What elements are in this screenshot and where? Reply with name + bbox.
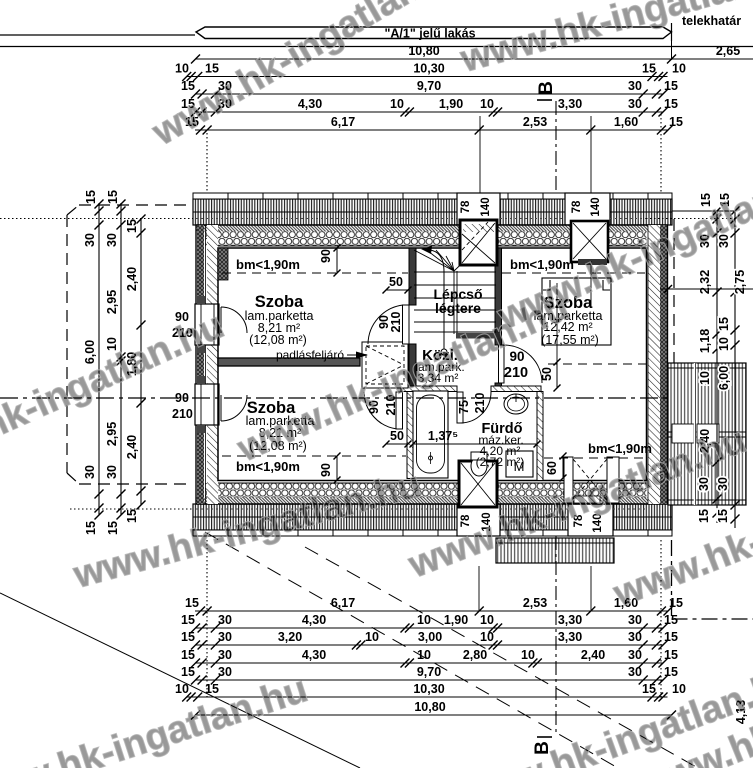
WC: [471, 452, 487, 476]
svg-text:10: 10: [390, 97, 404, 111]
partition wall between left rooms: [218, 358, 360, 366]
wall axis dashed right: [548, 363, 646, 365]
right dimension chain 2 (15/30/2,75/15/10/6,00/30/15): [716, 193, 747, 528]
svg-text:15: 15: [664, 613, 678, 627]
bottom window with jambs: [564, 457, 619, 503]
dotted extension bottom-left: [70, 508, 197, 510]
svg-text:75: 75: [457, 400, 471, 414]
title bracket A/1 jelu lakas: [196, 23, 672, 41]
svg-text:78: 78: [460, 200, 472, 213]
svg-text:3,00: 3,00: [418, 630, 442, 644]
svg-text:10: 10: [672, 62, 686, 76]
site boundary diagonal solid: [0, 593, 360, 768]
svg-text:9,70: 9,70: [417, 79, 441, 93]
svg-text:30: 30: [628, 648, 642, 662]
door Szoba3 (90/210): [499, 345, 543, 383]
stair skylight box: [460, 220, 497, 265]
stair walk line with arrow: [421, 246, 447, 355]
svg-text:10: 10: [717, 337, 731, 351]
svg-text:1,37⁵: 1,37⁵: [428, 429, 458, 443]
svg-text:30: 30: [83, 465, 97, 479]
bottom dim row 10/15/10,30/15/10: [175, 682, 686, 702]
svg-text:210: 210: [504, 365, 528, 381]
wall Kozl/Furdo segment: [491, 386, 541, 392]
room Furdo labels: [476, 421, 525, 469]
svg-text:15: 15: [185, 596, 199, 610]
section marker B top: [536, 81, 557, 100]
dashed diagonal 2: [205, 532, 618, 768]
svg-text:padlásfeljáró: padlásfeljáró: [276, 348, 344, 362]
room Szoba 2 labels: [246, 399, 315, 453]
roof window gap top-left (78/140): [457, 193, 500, 225]
site boundary full line: [0, 46, 753, 48]
svg-text:bm<1,90m: bm<1,90m: [588, 441, 652, 456]
svg-text:2,80: 2,80: [463, 648, 487, 662]
svg-text:15: 15: [717, 317, 731, 331]
svg-text:1,90: 1,90: [444, 613, 468, 627]
svg-text:30: 30: [83, 233, 97, 247]
bottom extension line x=479: [478, 566, 480, 611]
site boundary line top left: [0, 34, 195, 36]
washbasin: [504, 394, 528, 414]
svg-text:15: 15: [181, 665, 195, 679]
dashed diagonal 1: [305, 547, 698, 768]
svg-text:10: 10: [672, 682, 686, 696]
svg-text:140: 140: [480, 197, 492, 216]
svg-text:15: 15: [84, 521, 98, 535]
svg-text:15: 15: [106, 190, 120, 204]
svg-text:15: 15: [125, 219, 139, 233]
svg-text:6,17: 6,17: [331, 596, 355, 610]
corner pier top-left: [218, 248, 228, 280]
svg-text:15: 15: [664, 648, 678, 662]
left dimension chain 2 (15/30/2,95/10/2,95/30/15): [105, 190, 126, 535]
bottom dotted axis x=661: [660, 540, 662, 697]
svg-text:15: 15: [716, 509, 730, 523]
svg-text:15: 15: [181, 613, 195, 627]
svg-text:30: 30: [628, 97, 642, 111]
extension line 2,32/2,75 right: [660, 288, 753, 290]
bottom dim row 15/30/4,30/10/1,90/10/3,30/30/15: [181, 613, 678, 633]
roof window gap bottom-left (78/140): [457, 504, 500, 536]
exterior wall left: [196, 225, 218, 504]
bottom dim row 15/30/3,20/10/3,00/10/3,30/30/15: [181, 630, 678, 650]
exterior wall right: [648, 225, 668, 504]
bottom dim row 15/30/9,70/30/15: [181, 665, 678, 685]
svg-text:15: 15: [106, 521, 120, 535]
room Szoba 3 labels: [534, 294, 603, 347]
svg-text:6,17: 6,17: [331, 115, 355, 129]
svg-text:6,00: 6,00: [717, 366, 731, 390]
svg-text:78: 78: [571, 200, 583, 213]
svg-text:50: 50: [390, 429, 404, 443]
svg-text:B: B: [536, 81, 557, 95]
left dimension chain 3 (15/2,40/1,80/2,40/15): [125, 215, 146, 523]
svg-text:2,53: 2,53: [523, 596, 547, 610]
dormer block below bottom band: [496, 538, 614, 563]
svg-text:30: 30: [105, 233, 119, 247]
stair right wall stub: [495, 383, 502, 392]
svg-text:(12,08 m²): (12,08 m²): [249, 333, 307, 347]
svg-text:15: 15: [84, 190, 98, 204]
extension line window left: [479, 116, 481, 193]
dim 60 rotated: [545, 453, 567, 482]
bathroom right wall: [537, 392, 543, 481]
svg-text:2,40: 2,40: [125, 435, 139, 459]
svg-text:10: 10: [175, 62, 189, 76]
wall Kozl/Szoba2 segment: [401, 386, 457, 392]
svg-text:4,30: 4,30: [302, 613, 326, 627]
svg-text:10: 10: [365, 630, 379, 644]
room Lepcso legtere labels: [433, 286, 482, 316]
svg-text:30: 30: [628, 613, 642, 627]
horizontal centerline: [0, 397, 708, 399]
dotted axis line x=207 top: [206, 133, 208, 193]
dim 50 right rotated: [540, 359, 561, 392]
dimension row 15/30/9,70/30/15: [181, 79, 678, 99]
svg-text:10,80: 10,80: [408, 44, 439, 58]
svg-text:10,30: 10,30: [413, 62, 444, 76]
svg-text:30: 30: [716, 477, 730, 491]
terrace roof right: [668, 363, 746, 505]
svg-text:50: 50: [540, 367, 554, 381]
tub niche partition: [407, 392, 413, 479]
svg-text:15: 15: [664, 665, 678, 679]
svg-text:4,30: 4,30: [298, 97, 322, 111]
svg-text:15: 15: [642, 62, 656, 76]
svg-text:9,70: 9,70: [417, 665, 441, 679]
svg-text:1,90: 1,90: [439, 97, 463, 111]
svg-text:10: 10: [480, 613, 494, 627]
svg-text:30: 30: [218, 648, 232, 662]
right dimension chain 1 (15/30/2,32/1,18/10/2,40/30/15): [697, 193, 722, 523]
svg-text:30: 30: [628, 665, 642, 679]
bathtub: [413, 391, 448, 478]
door Szoba2 (90/210): [364, 392, 403, 429]
svg-text:210: 210: [473, 393, 487, 414]
svg-text:4,30: 4,30: [302, 648, 326, 662]
stair left wall lower: [409, 344, 416, 391]
boundary dashdot x=671 bottom: [671, 540, 673, 619]
svg-text:30: 30: [218, 630, 232, 644]
staircase treads: [414, 271, 496, 334]
svg-text:1,18: 1,18: [698, 329, 712, 353]
eave extension line right: [672, 210, 736, 212]
svg-text:15: 15: [697, 509, 711, 523]
dimension row 15/6,17/2,53/1,60/15: [185, 115, 683, 135]
left dimension chain 1 (15/30/6,00/30/15): [83, 190, 104, 535]
svg-text:3,30: 3,30: [558, 613, 582, 627]
svg-text:15: 15: [125, 509, 139, 523]
svg-text:15: 15: [181, 648, 195, 662]
svg-text:(2,72 m²): (2,72 m²): [476, 455, 525, 469]
svg-text:3,30: 3,30: [558, 97, 582, 111]
window left lower (90/210): [172, 376, 219, 433]
bottom dim row 10,80: [191, 700, 676, 720]
bedroom window box top: [571, 221, 608, 265]
svg-text:1,60: 1,60: [614, 115, 638, 129]
svg-text:2,32: 2,32: [698, 270, 712, 294]
dotted axis line x=661 top: [660, 114, 662, 193]
svg-text:2,95: 2,95: [105, 290, 119, 314]
dim 90 bottom rotated: [319, 453, 341, 484]
window swing arc lower-left: [221, 395, 247, 421]
svg-text:15: 15: [669, 596, 683, 610]
svg-text:50: 50: [389, 275, 403, 289]
svg-text:3,20: 3,20: [278, 630, 302, 644]
svg-text:210: 210: [172, 407, 193, 421]
roof window gap top-right (78/140): [565, 193, 610, 225]
stair right wall: [495, 248, 502, 345]
svg-text:10: 10: [480, 97, 494, 111]
bed: [542, 278, 611, 345]
bottom dotted axis x=207: [206, 540, 208, 697]
svg-text:30: 30: [218, 665, 232, 679]
svg-text:2,95: 2,95: [105, 422, 119, 446]
dim 50 upper: [383, 275, 412, 294]
section marker B bottom: [532, 737, 553, 755]
svg-text:2,65: 2,65: [716, 44, 740, 58]
boundary vertical x=671.5: [671, 41, 673, 60]
window axis line: [590, 261, 592, 308]
door bathroom (75/210): [457, 392, 491, 423]
dimension row 10,80 / 2,65: [191, 44, 753, 64]
svg-text:2,40: 2,40: [125, 267, 139, 291]
dotted extension top-left: [0, 218, 196, 220]
band axis dashes top: [196, 218, 646, 220]
bm line top: [222, 272, 645, 274]
padlasfeljaro label with leader: [276, 348, 368, 362]
svg-text:10,30: 10,30: [413, 682, 444, 696]
svg-text:15: 15: [664, 630, 678, 644]
extension line window right: [590, 116, 592, 193]
svg-text:140: 140: [590, 197, 602, 216]
chimney block with X: [459, 461, 497, 507]
svg-text:2,75: 2,75: [733, 270, 747, 294]
svg-text:10: 10: [480, 630, 494, 644]
stair landing edge: [456, 333, 501, 339]
dimension row 10/15/10,30/15/10: [175, 62, 686, 82]
stair left wall upper: [409, 248, 416, 305]
bottom dim row 15/6,17/2,53/1,60/15: [185, 596, 683, 616]
dashed eave outline left: [67, 205, 193, 484]
svg-text:10,80: 10,80: [414, 700, 445, 714]
svg-text:2,40: 2,40: [581, 648, 605, 662]
bm line bottom: [222, 456, 646, 458]
exterior wall bottom: [196, 483, 668, 504]
svg-text:10: 10: [521, 648, 535, 662]
svg-text:2,53: 2,53: [523, 115, 547, 129]
washing machine M: [506, 451, 533, 477]
window swing arc upper-left: [221, 307, 247, 333]
svg-text:15: 15: [664, 97, 678, 111]
attic hatch box: [362, 342, 408, 388]
svg-text:30: 30: [697, 477, 711, 491]
band axis dashes bottom: [196, 508, 646, 510]
svg-text:15: 15: [181, 630, 195, 644]
svg-text:210: 210: [389, 312, 403, 333]
dim 50 lower: [383, 429, 412, 448]
bottom dim row 15/30/4,30/10/2,80/10/2,40/30/15: [181, 648, 678, 668]
svg-text:légtere: légtere: [435, 300, 481, 316]
svg-text:15: 15: [205, 62, 219, 76]
svg-text:15: 15: [669, 115, 683, 129]
svg-text:60: 60: [545, 461, 559, 475]
door Szoba1 (90/210): [368, 305, 409, 344]
section line B-B bottom: [555, 536, 557, 735]
svg-text:3,30: 3,30: [558, 630, 582, 644]
room Kozl labels: [415, 347, 464, 385]
dim 90 top rotated: [319, 245, 341, 277]
roof eave band bottom: [193, 504, 672, 536]
svg-text:10: 10: [698, 371, 712, 385]
svg-text:30: 30: [628, 630, 642, 644]
interior room outline: [218, 248, 647, 481]
dimension row 15/30/4,30/10/1,90/10/3,30/30/15: [181, 97, 678, 117]
svg-text:10: 10: [417, 613, 431, 627]
svg-text:15: 15: [642, 682, 656, 696]
telekhatar dashdot bottom right: [672, 618, 753, 620]
window left upper (90/210): [172, 296, 219, 353]
svg-text:90: 90: [319, 463, 333, 477]
svg-text:bm<1,90m: bm<1,90m: [236, 257, 300, 272]
room Szoba 1 labels: [245, 293, 314, 347]
svg-text:90: 90: [319, 249, 333, 263]
stair winder fan: [414, 248, 478, 271]
svg-text:30: 30: [218, 613, 232, 627]
dim 1,37: [410, 429, 541, 448]
section line B-B middle: [556, 283, 558, 388]
dotted extension top-right: [646, 218, 738, 220]
svg-text:30: 30: [105, 465, 119, 479]
exterior wall top: [196, 225, 668, 246]
dashed eave outline right: [673, 219, 675, 363]
roof eave band top: [193, 193, 672, 225]
section line B-B vertical top: [555, 101, 557, 220]
svg-text:10: 10: [417, 648, 431, 662]
svg-text:30: 30: [628, 79, 642, 93]
roof window gap bottom-right (78/140): [568, 504, 613, 536]
bottom extension line x=591: [590, 566, 592, 611]
svg-text:15: 15: [664, 79, 678, 93]
